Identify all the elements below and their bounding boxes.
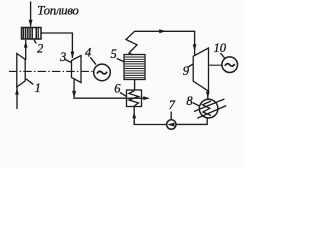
steam zigzag from boiler 5 [126,31,137,55]
svg-text:3: 3 [59,50,66,64]
economizer 6 [127,90,142,107]
svg-text:6: 6 [114,82,121,96]
label 8 with leader [186,94,200,108]
generator 4 [94,64,111,81]
steam to condenser arrow [206,91,210,99]
air intake arrow [15,87,19,110]
steam turbine 9 [193,48,208,91]
steam line to steam turbine 9 [135,29,197,55]
fuel inlet arrow [29,2,33,27]
svg-text:4: 4 [85,46,91,60]
svg-text:Топливо: Топливо [37,3,79,17]
wire boiler 5 to economizer 6 [134,80,136,91]
feedwater arrow into economizer 6 [132,107,136,124]
compressor 1 [17,54,25,87]
HRSG evaporator 5 [124,55,145,80]
label 1 with leader [26,79,41,95]
label 5 with leader [111,47,125,62]
exhaust wire turbine3 down and right to HRSG [72,79,127,98]
label 6 with leader [114,82,126,97]
label 2 with leader [34,40,43,56]
svg-text:9: 9 [183,64,190,78]
label 7 with leader [169,98,176,120]
label 4 with leader [85,46,96,65]
label 9 with leader [183,64,193,78]
svg-text:8: 8 [186,94,193,108]
generator 10 [222,57,238,73]
gas turbine 3 [72,56,82,83]
flue gas out arrow through economizer [127,96,150,100]
condensate wire condenser to pump [176,117,207,124]
compressor discharge arrow to combustor [24,40,28,60]
svg-text:2: 2 [37,42,43,56]
label 3 with leader [59,50,71,64]
svg-text:5: 5 [111,47,117,61]
svg-text:1: 1 [35,81,41,95]
condenser 8 [194,99,226,118]
pump 7 [167,120,176,129]
wire combustor to gas turbine [41,33,74,58]
shaft dash-dot line 1-3-4 [9,70,94,72]
shaft line 9-10 [209,64,223,66]
combustion chamber 2 [22,28,42,40]
svg-text:7: 7 [169,98,176,112]
feedwater wire pump to economizer [134,120,166,125]
svg-text:10: 10 [214,41,227,55]
label 10 with leader [214,41,227,59]
